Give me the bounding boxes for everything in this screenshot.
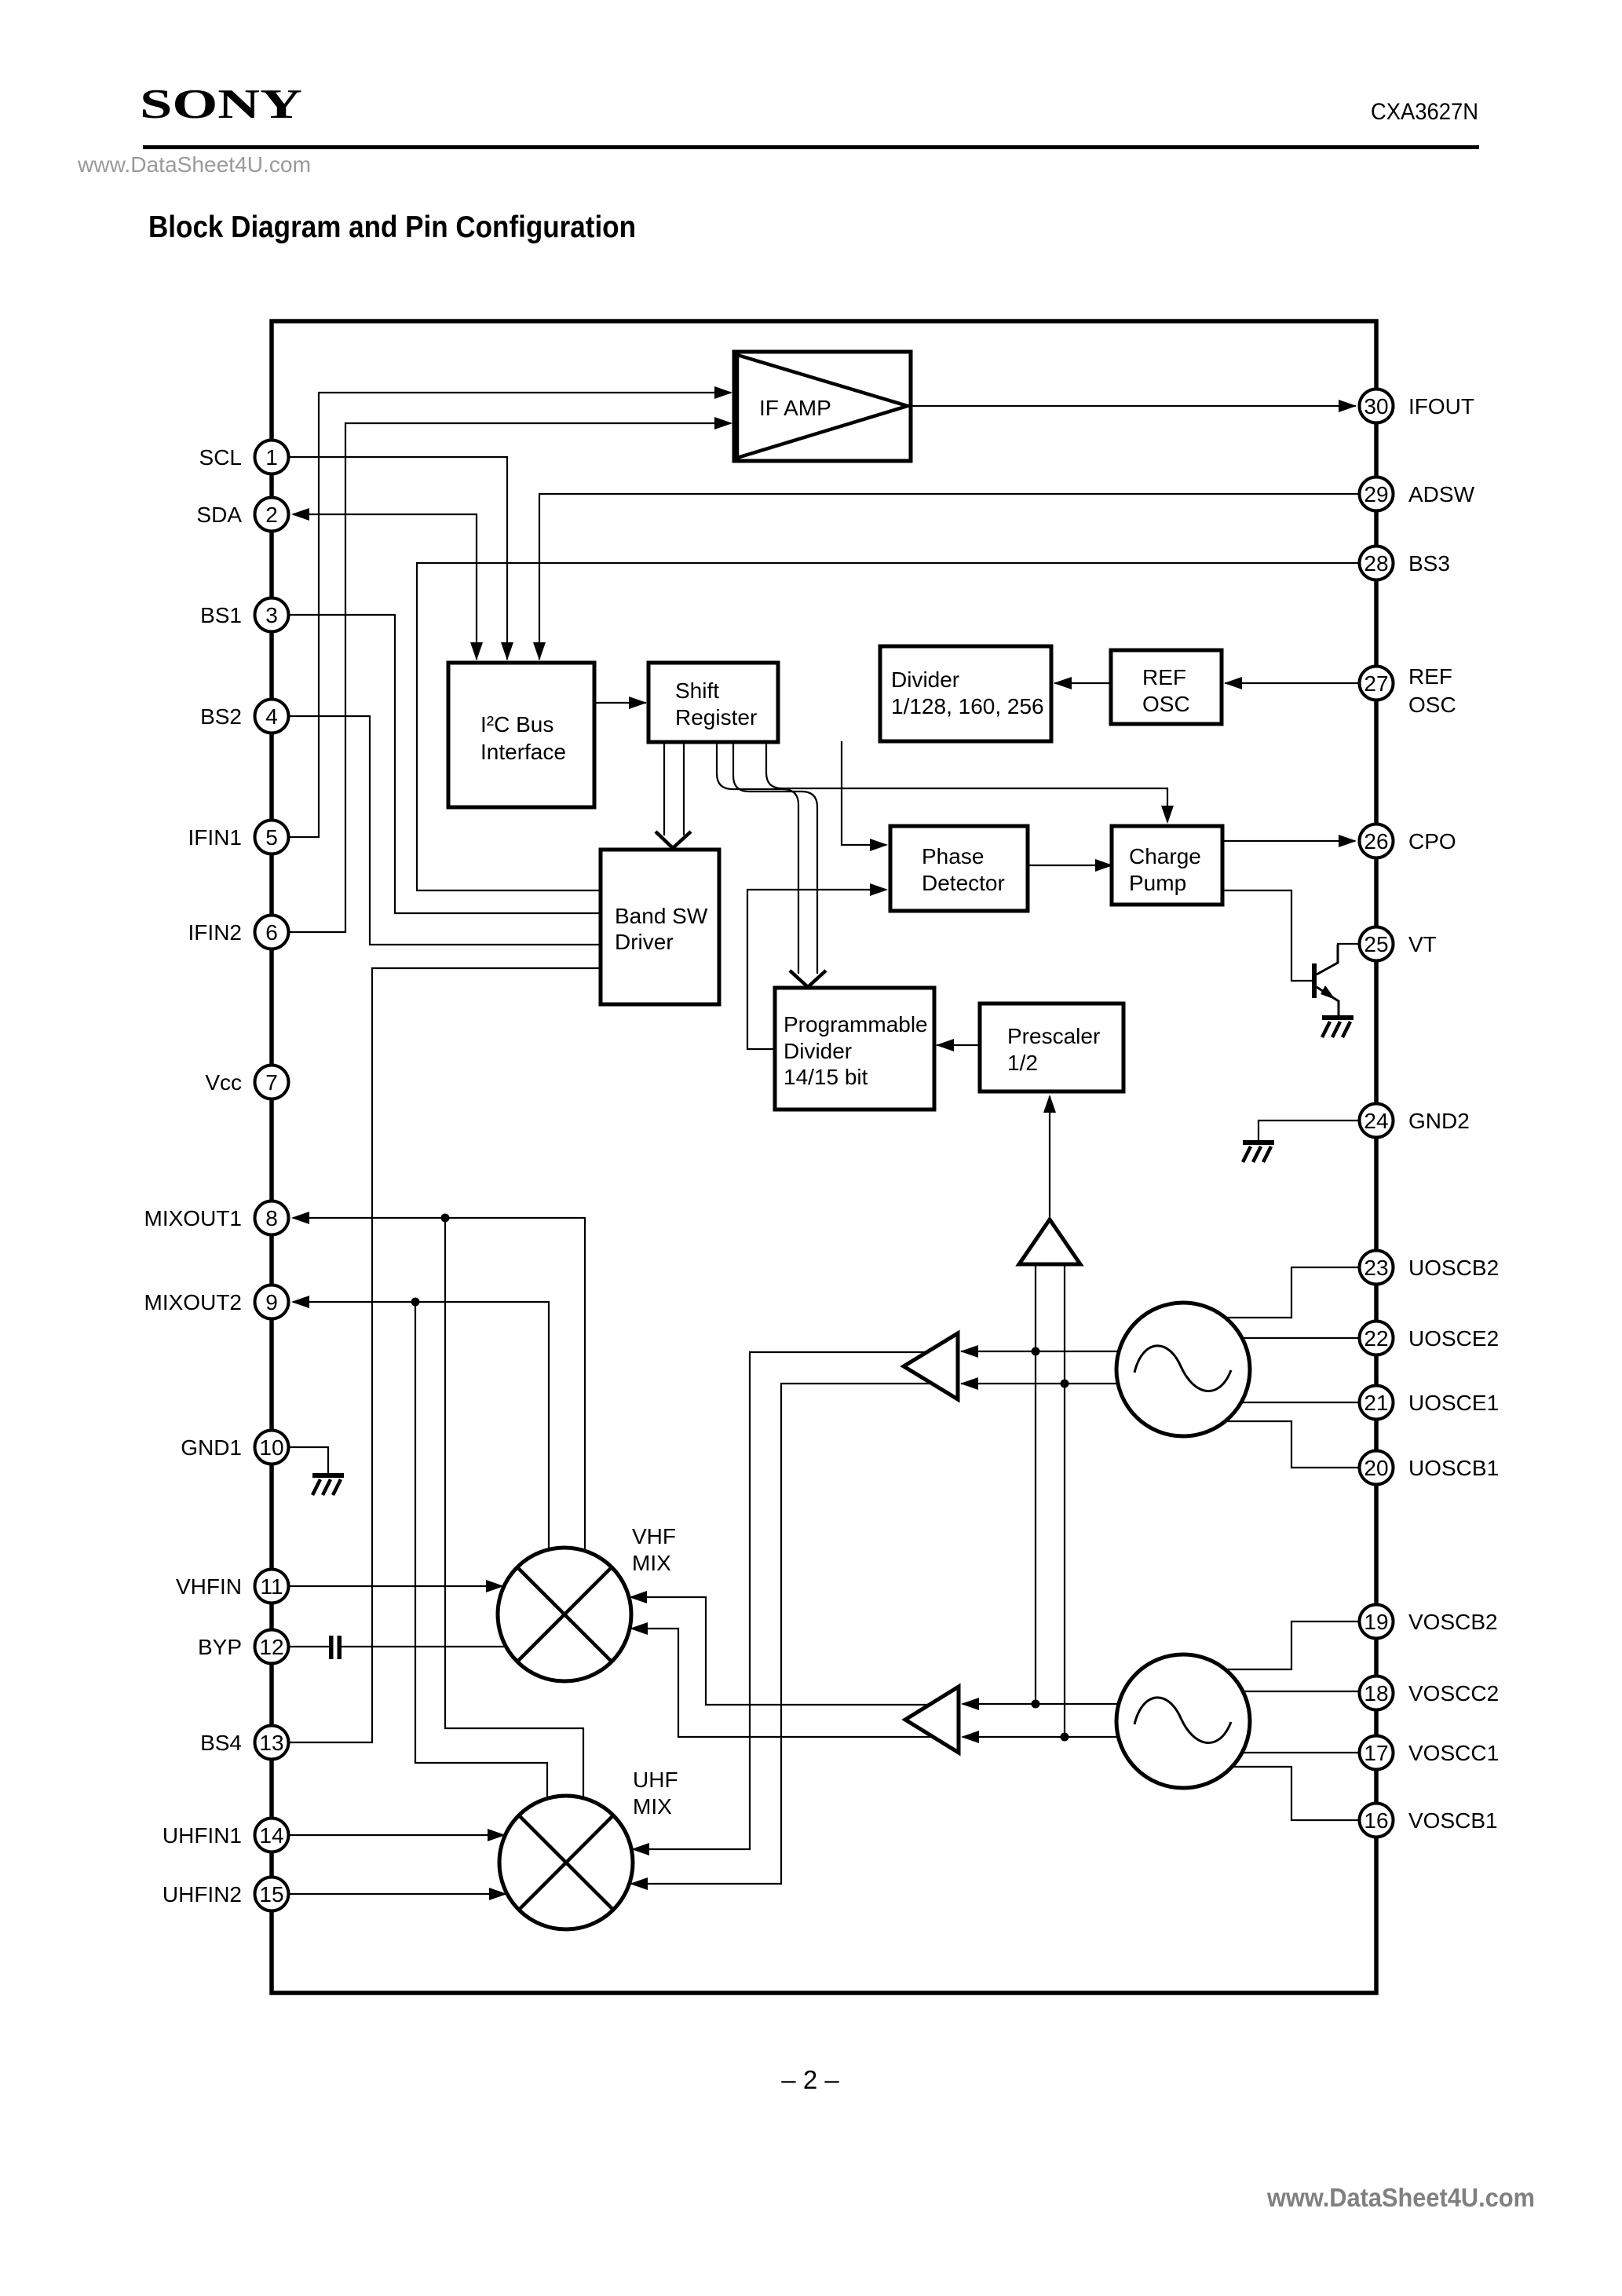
svg-text:Band SW: Band SW [615,904,708,928]
UHF buffer amp (left triangle) [904,1333,958,1399]
svg-text:BS1: BS1 [200,603,242,627]
pin 18 VOSCC2 [1360,1676,1394,1710]
ground at GND2 [1243,1140,1274,1145]
arrowhead into phase detector from programmable divider [870,883,888,896]
pin 5 IFIN1 [255,821,289,854]
wire VHF osc to VHF buffer input 2 [963,1736,1119,1738]
wire UHFIN1 to UHF mixer [272,1834,504,1836]
wire capacitor to VHF mixer [342,1646,509,1647]
IF AMP block [734,352,911,461]
svg-text:BS4: BS4 [200,1731,242,1755]
svg-text:2: 2 [265,503,278,527]
pin 21 UOSCE1 [1360,1386,1394,1420]
svg-text:SDA: SDA [196,503,242,527]
buffer amp to prescaler (up triangle) [1019,1219,1080,1264]
wire BS2 to band SW driver [272,716,601,945]
svg-text:9: 9 [265,1290,278,1314]
band SW driver block [601,850,719,1004]
svg-text:Block Diagram and Pin Configur: Block Diagram and Pin Configuration [148,210,636,244]
op-amp triangle inside IF AMP [737,355,908,458]
svg-text:VT: VT [1408,932,1437,956]
arrowhead into CPO pin [1339,835,1357,847]
svg-text:OSC: OSC [1142,692,1190,716]
pin 23 UOSCB2 [1360,1251,1394,1285]
wire VHF osc to VHF buffer input 1 [963,1703,1120,1705]
arrowhead into VHF mixer from buffer output 1 [629,1591,647,1603]
arrowhead into IFOUT [1339,400,1357,412]
pin 3 BS1 [255,598,289,632]
svg-text:Pump: Pump [1129,871,1186,895]
wire UHFIN2 to UHF mixer [272,1893,506,1895]
svg-text:Driver: Driver [615,930,674,954]
wire shift register to programmable divider line 1 [717,742,798,974]
programmable divider block [775,988,934,1110]
svg-text:15: 15 [259,1882,283,1907]
svg-text:21: 21 [1364,1391,1388,1415]
VHF oscillator circle [1116,1654,1250,1788]
wire SDA to I2C bus interface [293,514,477,660]
wire VHF osc to VOSCB1 [1223,1767,1376,1820]
svg-text:Charge: Charge [1129,844,1201,868]
svg-text:BYP: BYP [198,1635,242,1659]
svg-text:REF: REF [1142,665,1186,689]
pin 13 BS4 [255,1726,289,1760]
arrowhead into charge pump from phase detector [1095,859,1113,872]
wire phase detector to charge pump [1028,865,1110,866]
X cross in VHF mixer [517,1567,612,1662]
svg-text:I²C Bus: I²C Bus [480,712,553,737]
svg-text:Shift: Shift [675,678,719,703]
svg-text:12: 12 [259,1635,283,1659]
wire oscillator bus left (buffer base to mixers buffers) [1035,1260,1036,1704]
junction dot UHF buffer upper [1032,1347,1040,1356]
svg-text:7: 7 [265,1070,278,1095]
wire oscillator bus right [1064,1260,1065,1737]
svg-text:GND1: GND1 [181,1435,242,1460]
arrowhead into REF OSC block [1224,677,1242,689]
svg-text:VOSCB1: VOSCB1 [1408,1808,1498,1833]
pin 15 UHFIN2 [255,1877,289,1911]
svg-text:UHF: UHF [633,1768,678,1792]
wire UHF osc to UHF buffer input 1 [961,1351,1120,1352]
wire GND2 to ground [1259,1121,1376,1141]
wire UHF osc to UHF buffer input 2 [961,1383,1119,1384]
svg-text:Interface: Interface [480,740,566,764]
svg-text:IFIN1: IFIN1 [188,825,242,850]
arrowhead into VHF mixer from VHFIN [486,1580,504,1592]
arrowhead into IF AMP input 1 [714,386,732,399]
svg-text:Divider: Divider [784,1039,852,1063]
svg-text:18: 18 [1364,1681,1388,1706]
wire VHFIN to VHF mixer [272,1585,502,1587]
svg-text:IFIN2: IFIN2 [188,920,242,945]
wire shift register to band SW driver (double line) [664,742,684,835]
arrowhead into I2C top from SDA [470,642,483,660]
svg-text:Vcc: Vcc [205,1070,242,1095]
svg-text:BS3: BS3 [1408,551,1450,576]
pin 16 VOSCB1 [1360,1804,1394,1837]
svg-text:VOSCC2: VOSCC2 [1408,1681,1499,1706]
wire UHF buffer output 2 to UHF mixer [631,1384,950,1884]
svg-text:BS2: BS2 [200,704,242,729]
wire oscillator buffer to prescaler [1049,1096,1050,1225]
svg-text:29: 29 [1364,482,1388,506]
svg-text:Programmable: Programmable [784,1012,928,1036]
svg-text:VOSCB2: VOSCB2 [1408,1610,1498,1634]
arrowhead into IF AMP input 2 [714,417,732,430]
svg-text:1/128, 160, 256: 1/128, 160, 256 [891,694,1044,718]
svg-text:19: 19 [1364,1610,1388,1634]
wire shift register to programmable divider line 2 [733,742,817,974]
wire I2C bus interface to shift register [594,702,646,704]
arrowhead into MIXOUT2 pin [291,1296,309,1308]
svg-text:SCL: SCL [199,445,242,470]
ground at GND1 [312,1473,344,1478]
pin 12 BYP [255,1630,289,1664]
svg-text:OSC: OSC [1408,693,1456,717]
sine wave in VHF oscillator [1134,1698,1231,1743]
svg-text:UHFIN1: UHFIN1 [163,1823,242,1848]
phase detector block [890,826,1028,911]
wire REF OSC block to divider [1054,682,1111,684]
svg-text:1/2: 1/2 [1007,1051,1038,1075]
I2C bus interface block [448,663,594,807]
X cross in UHF mixer [519,1815,613,1910]
pin 20 UOSCB1 [1360,1451,1394,1485]
svg-text:VHF: VHF [632,1524,676,1548]
wire MIXOUT1 to UHF mixer [445,1218,583,1802]
svg-text:14: 14 [259,1823,283,1848]
wire MIXOUT2 to UHF mixer [415,1302,547,1802]
svg-text:17: 17 [1364,1741,1388,1765]
svg-text:16: 16 [1364,1808,1388,1833]
svg-text:MIXOUT2: MIXOUT2 [144,1290,242,1314]
arrowhead into divider block [1054,677,1072,689]
wire GND1 to ground [272,1447,328,1474]
svg-text:20: 20 [1364,1456,1388,1480]
svg-text:Divider: Divider [891,667,959,692]
pin 4 BS2 [255,700,289,733]
open arrowhead shift register to band SW driver [656,832,691,848]
capacitor C1 at BYP plate 1 [329,1636,334,1659]
wire VHF buffer output 1 to VHF mixer [630,1597,952,1705]
arrowhead into UHF buffer input 1 [960,1345,978,1358]
svg-text:UOSCE2: UOSCE2 [1408,1326,1499,1351]
pin 27 REF OSC [1360,667,1394,700]
wire divider to phase detector [842,741,886,845]
shift register block [648,663,778,742]
svg-text:22: 22 [1364,1326,1388,1351]
svg-text:13: 13 [259,1731,283,1755]
svg-text:MIX: MIX [633,1794,672,1819]
wire IFIN2 to IF AMP input 2 [272,423,731,932]
wire shift register to charge pump [766,742,1167,822]
arrowhead into programmable divider from prescaler [936,1039,954,1051]
capacitor C1 at BYP plate 2 [338,1636,342,1659]
pin 25 VT [1360,927,1394,961]
pin 9 MIXOUT2 [255,1285,289,1319]
pin 28 BS3 [1360,547,1394,580]
svg-text:SONY: SONY [140,80,302,126]
wire UHF osc to UOSCB1 [1223,1421,1376,1468]
junction dot VHF buffer upper [1032,1700,1040,1709]
svg-text:UOSCB1: UOSCB1 [1408,1456,1499,1480]
wire ADSW to I2C bus interface [539,494,1376,660]
arrowhead into charge pump top [1161,806,1174,824]
svg-text:Detector: Detector [922,871,1005,895]
svg-text:Prescaler: Prescaler [1007,1024,1100,1048]
svg-text:25: 25 [1364,932,1388,956]
UHF oscillator circle [1116,1303,1250,1436]
pin 11 VHFIN [255,1570,289,1603]
svg-text:UOSCB2: UOSCB2 [1408,1256,1499,1280]
arrowhead into UHF mixer from buffer output 1 [631,1843,649,1855]
svg-text:CXA3627N: CXA3627N [1371,99,1478,125]
svg-text:26: 26 [1364,829,1388,854]
arrowhead into SDA pin [291,508,309,521]
prescaler block [980,1004,1123,1091]
sine wave in UHF oscillator [1134,1346,1231,1391]
svg-text:ADSW: ADSW [1408,482,1475,506]
pin 2 SDA [255,498,289,532]
arrowhead into UHF mixer from UHFIN1 [488,1829,506,1841]
svg-text:IF AMP: IF AMP [759,396,831,420]
svg-text:11: 11 [260,1574,283,1599]
junction dot MIXOUT2 [411,1298,420,1307]
arrowhead into I2C top from SCL [501,642,513,660]
transistor Q1 emitter arrow [1321,985,1335,1000]
wire IFIN1 to IF AMP input 1 [272,393,731,837]
svg-text:CPO: CPO [1408,829,1456,854]
svg-text:www.DataSheet4U.com: www.DataSheet4U.com [77,152,311,177]
wire VHF osc to VOSCB2 [1223,1621,1376,1669]
junction dot MIXOUT1 [441,1214,450,1223]
svg-text:10: 10 [259,1435,283,1460]
svg-text:UOSCE1: UOSCE1 [1408,1391,1499,1415]
arrowhead into phase detector from divider [870,839,888,851]
pin 30 IFOUT [1360,389,1394,423]
transistor Q1 emitter [1317,987,1339,1016]
pin 6 IFIN2 [255,916,289,949]
wire MIXOUT1 to VHF mixer [293,1218,585,1555]
ground at transistor emitter [1322,1015,1353,1020]
arrowhead into VHF mixer from buffer output 2 [630,1622,648,1635]
transistor Q1 base bar [1312,963,1317,998]
svg-text:Register: Register [675,705,757,729]
arrowhead into MIXOUT1 pin [291,1212,309,1224]
wire VHF buffer output 2 to VHF mixer [631,1629,952,1737]
wire MIXOUT2 to VHF mixer [293,1302,549,1555]
svg-text:MIXOUT1: MIXOUT1 [144,1206,242,1230]
arrowhead into UHF mixer from buffer output 2 [630,1877,648,1890]
pin 19 VOSCB2 [1360,1605,1394,1639]
arrowhead into prescaler from buffer [1043,1095,1056,1113]
wire SCL to I2C bus interface [272,457,507,660]
IC outline box [272,321,1376,1993]
svg-text:IFOUT: IFOUT [1408,394,1474,419]
svg-text:www.DataSheet4U.com: www.DataSheet4U.com [1266,2183,1535,2212]
divider block [880,646,1051,741]
svg-text:VHFIN: VHFIN [176,1574,242,1599]
open arrowhead shift register to programmable divider [790,971,826,987]
svg-text:30: 30 [1364,394,1388,419]
arrowhead into UHF buffer input 2 [960,1377,978,1390]
wire VHF osc to VOSCC2 [1240,1691,1376,1692]
pin 29 ADSW [1360,477,1394,511]
arrowhead into VHF buffer input 1 [961,1698,979,1710]
svg-text:UHFIN2: UHFIN2 [163,1882,242,1907]
pin 8 MIXOUT1 [255,1201,289,1235]
junction dot UHF buffer lower [1061,1380,1069,1388]
wire IF AMP output to IFOUT [911,405,1356,407]
arrowhead into UHF mixer from UHFIN2 [489,1888,507,1900]
pin 22 UOSCE2 [1360,1322,1394,1355]
svg-text:3: 3 [265,603,278,627]
pin 7 Vcc [255,1066,289,1099]
wire UHF buffer output 1 to UHF mixer [633,1352,950,1849]
svg-text:4: 4 [265,704,278,729]
VHF mixer circle [498,1548,631,1681]
svg-text:1: 1 [265,445,278,470]
junction dot VHF buffer lower [1061,1733,1069,1742]
svg-text:8: 8 [265,1206,278,1230]
pin 17 VOSCC1 [1360,1736,1394,1770]
wire BS3 to band SW driver [417,563,1376,890]
VHF buffer amp (left triangle) [905,1687,959,1753]
pin 24 GND2 [1360,1104,1394,1138]
svg-text:6: 6 [265,920,278,945]
svg-text:23: 23 [1364,1256,1388,1280]
wire prescaler to programmable divider [937,1044,980,1046]
charge pump block [1112,826,1222,905]
svg-text:27: 27 [1364,671,1388,696]
wire UHF osc to UOSCB2 [1223,1267,1376,1318]
wire BYP to capacitor [272,1646,329,1647]
wire transistor collector to VT [1338,944,1376,961]
transistor Q1 collector [1317,945,1338,974]
wire BS4 to band SW driver [272,968,601,1742]
SONY logo [140,80,302,126]
wire BS1 to band SW driver [272,615,601,913]
svg-text:Phase: Phase [922,844,984,868]
UHF mixer circle [499,1796,633,1929]
pin 1 SCL [255,441,289,474]
pin 10 GND1 [255,1431,289,1464]
svg-text:MIX: MIX [632,1551,671,1575]
wire UHF osc to UOSCE2 [1240,1337,1376,1339]
wire REF OSC pin 27 to REF OSC block [1225,682,1376,684]
wire charge pump to transistor base [1222,890,1312,981]
wire charge pump to CPO [1222,840,1355,842]
pin 14 UHFIN1 [255,1819,289,1852]
svg-text:24: 24 [1364,1109,1388,1133]
svg-text:REF: REF [1408,664,1452,689]
svg-text:14/15 bit: 14/15 bit [784,1065,868,1089]
svg-text:VOSCC1: VOSCC1 [1408,1741,1499,1765]
header rule [143,145,1479,149]
arrowhead into I2C top from ADSW [533,642,546,660]
wire programmable divider feedback to phase detector [747,890,886,1049]
arrowhead into VHF buffer input 2 [961,1731,979,1743]
wire UHF osc to UOSCE1 [1240,1402,1376,1403]
REF OSC block [1111,650,1222,724]
svg-text:– 2 –: – 2 – [781,2065,839,2094]
wire VHF osc to VOSCC1 [1240,1752,1376,1753]
pin 26 CPO [1360,824,1394,858]
arrowhead into shift register [629,696,647,709]
svg-text:GND2: GND2 [1408,1109,1470,1133]
svg-text:28: 28 [1364,551,1388,576]
svg-text:5: 5 [265,825,278,850]
